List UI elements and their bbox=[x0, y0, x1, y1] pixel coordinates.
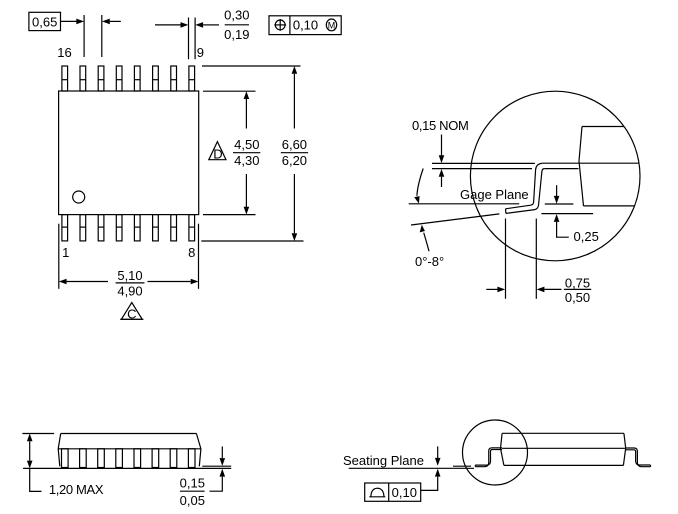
body top edge bbox=[61, 433, 197, 435]
dimension 0,65: leader arrow to pin 15 centerline bbox=[61, 19, 85, 25]
dimension 0,15/0,05 standoff bbox=[180, 447, 225, 508]
value label 0,30 over 0,19 bbox=[224, 7, 249, 42]
dimension 0,75/0,50 foot length bbox=[486, 219, 591, 305]
pin 3 bbox=[98, 215, 104, 241]
left lead tip edge bbox=[474, 465, 476, 467]
svg-text:1: 1 bbox=[62, 245, 69, 260]
svg-text:0,05: 0,05 bbox=[180, 493, 205, 508]
seating plane arrow upper bbox=[435, 446, 441, 465]
pin 16 bbox=[62, 66, 68, 91]
pin 2 bbox=[80, 215, 86, 241]
package body edge in detail bbox=[579, 127, 584, 206]
body parting line bbox=[58, 448, 201, 450]
pin 12 bbox=[134, 66, 140, 91]
pin 7 bbox=[171, 215, 177, 241]
pin 8 bbox=[189, 215, 195, 241]
svg-text:6,60: 6,60 bbox=[282, 137, 307, 152]
svg-text:0,10: 0,10 bbox=[293, 18, 318, 33]
svg-text:5,10: 5,10 bbox=[117, 268, 142, 283]
seating plane line bbox=[349, 467, 474, 469]
dimension 5,10/4,90 body length bbox=[59, 224, 199, 299]
body left edge bbox=[58, 434, 61, 467]
extension line pin 9 left edge bbox=[188, 18, 190, 60]
dimension 4,50/4,30 body width bbox=[203, 91, 260, 214]
right gull-wing lead outer contour bbox=[626, 448, 651, 467]
pin 15 bbox=[80, 66, 86, 91]
side lead 6 bbox=[152, 449, 159, 468]
lead thickness extension line upper bbox=[432, 162, 535, 164]
svg-text:16: 16 bbox=[57, 45, 71, 60]
svg-text:0,75: 0,75 bbox=[565, 275, 590, 290]
body bottom edge bbox=[504, 464, 624, 466]
pin 1 index circle bbox=[73, 191, 85, 203]
svg-text:0°-8°: 0°-8° bbox=[415, 254, 444, 269]
side lead 7 bbox=[170, 449, 177, 468]
body standoff line bbox=[202, 465, 231, 467]
angle dimension arc arrow onto gage plane bbox=[414, 169, 423, 204]
body right edge bbox=[623, 433, 625, 465]
body (end view) top edge bbox=[502, 432, 624, 434]
svg-text:0,15: 0,15 bbox=[180, 476, 205, 491]
pin 9 bbox=[189, 66, 195, 91]
dimension 0,30/0,19: right arrow bbox=[195, 22, 219, 28]
feature control frame: seating plane 0,10 bbox=[365, 483, 421, 501]
left gull-wing lead inner contour bbox=[475, 450, 502, 466]
dimension 0,25 gage plane offset bbox=[541, 185, 598, 244]
side lead 8 bbox=[188, 449, 195, 468]
svg-text:4,50: 4,50 bbox=[234, 137, 259, 152]
thickness arrow upper bbox=[439, 135, 445, 164]
lead bottom surface line to body bbox=[544, 168, 578, 170]
svg-text:D: D bbox=[213, 147, 222, 162]
dimension 0,30/0,19 lead width: left arrow bbox=[155, 22, 188, 28]
svg-text:0,15 NOM: 0,15 NOM bbox=[412, 118, 468, 133]
pin 11 bbox=[153, 66, 159, 91]
feature control frame: true position 0,10 M bbox=[269, 16, 341, 35]
thickness arrow lower bbox=[439, 169, 445, 187]
lead top surface line to body bbox=[542, 162, 638, 164]
body left edge bbox=[501, 433, 504, 465]
svg-text:4,30: 4,30 bbox=[234, 153, 259, 168]
svg-text:0,19: 0,19 bbox=[224, 27, 249, 42]
package body (top view) bbox=[59, 91, 199, 215]
top extension line bbox=[22, 433, 54, 435]
angle arrow to reference line bbox=[420, 225, 429, 251]
side lead 3 bbox=[98, 449, 105, 468]
body bottom edge in detail bbox=[584, 205, 635, 207]
gage plane line bbox=[409, 203, 520, 205]
pin 13 bbox=[116, 66, 122, 91]
dimension 1,20 MAX height bbox=[27, 434, 104, 497]
pin 6 bbox=[153, 215, 159, 241]
svg-text:6,20: 6,20 bbox=[282, 153, 307, 168]
foot angle reference line 0-8 deg bbox=[411, 214, 499, 225]
lead inner contour bbox=[506, 169, 544, 214]
lead tip edge bbox=[505, 209, 507, 214]
svg-text:M: M bbox=[328, 20, 336, 30]
svg-text:Seating Plane: Seating Plane bbox=[343, 453, 424, 468]
dimension 0,65 pitch: boxed value bbox=[29, 12, 61, 30]
body right edge bbox=[196, 434, 201, 467]
dimension 0,65: opposing arrow bbox=[102, 19, 121, 25]
lead outer contour (bend, shank, foot bottom side) bbox=[506, 163, 543, 209]
side lead 2 bbox=[80, 449, 87, 468]
seating plane line bbox=[23, 467, 231, 469]
svg-text:8: 8 bbox=[188, 245, 195, 260]
side lead 5 bbox=[134, 449, 141, 468]
svg-text:1,20 MAX: 1,20 MAX bbox=[49, 482, 104, 497]
left gull-wing lead outer contour bbox=[475, 448, 502, 467]
svg-text:9: 9 bbox=[197, 45, 204, 60]
right lead tip edge bbox=[649, 465, 651, 467]
note triangle C bbox=[120, 303, 143, 322]
lead thickness extension line lower bbox=[432, 168, 532, 170]
side lead 4 bbox=[116, 449, 123, 468]
body top edge in detail bbox=[582, 126, 624, 128]
extension line pin 9 right edge bbox=[194, 18, 196, 60]
detail circle (end view) bbox=[463, 420, 528, 485]
pin 1 bbox=[62, 215, 68, 241]
right gull-wing lead inner contour bbox=[626, 450, 651, 465]
svg-text:0,50: 0,50 bbox=[565, 290, 590, 305]
detail circle boundary bbox=[470, 91, 640, 261]
body parting line bbox=[502, 447, 626, 449]
svg-text:0,10: 0,10 bbox=[392, 485, 417, 500]
pin 5 bbox=[134, 215, 140, 241]
svg-text:0,25: 0,25 bbox=[574, 229, 599, 244]
lead bottom tangent line bbox=[453, 465, 471, 467]
note triangle D bbox=[209, 142, 226, 162]
pin 14 bbox=[98, 66, 104, 91]
dimension 6,60/6,20 lead span bbox=[201, 66, 308, 241]
extension line pin 14 center bbox=[101, 15, 103, 57]
pin 10 bbox=[171, 66, 177, 91]
svg-text:Gage Plane: Gage Plane bbox=[460, 187, 529, 202]
extension line pin 15 center bbox=[83, 15, 85, 57]
svg-text:0,65: 0,65 bbox=[32, 15, 57, 30]
side lead 1 bbox=[62, 449, 69, 468]
svg-text:4,90: 4,90 bbox=[117, 283, 142, 298]
svg-text:0,30: 0,30 bbox=[224, 7, 249, 22]
svg-text:C: C bbox=[127, 306, 136, 321]
seating plane arrow lower with leader bbox=[421, 469, 441, 491]
pin 4 bbox=[116, 215, 122, 241]
